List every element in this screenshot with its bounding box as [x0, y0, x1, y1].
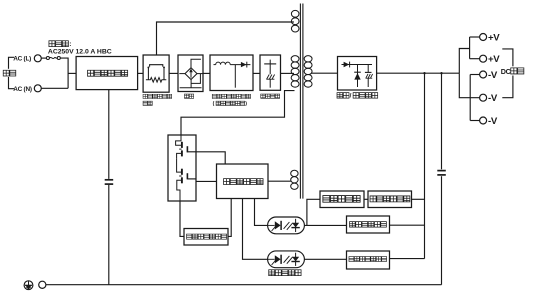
- overcurrent box 过电流回路: [320, 191, 364, 208]
- label 输入: [2, 69, 17, 77]
- wire Q1 gate to drive circuit: [187, 151, 196, 153]
- rectifier box 整流: [178, 55, 203, 92]
- wire AC(N) to junction: [41, 87, 68, 89]
- wire PC1 to voltage detection: [305, 224, 347, 226]
- wire top rail to transformer winding: [157, 22, 294, 55]
- output terminal +V #1: [480, 34, 487, 41]
- wire drive box to aux winding: [268, 180, 291, 182]
- overvoltage detection box 过电压检测回路: [347, 251, 390, 269]
- output terminal -V #5: [480, 117, 487, 124]
- label 光电耦合器: [269, 270, 301, 276]
- wire drive box to photocoupler PC2: [243, 199, 268, 260]
- wire FET source down to overcurrent detect: [180, 201, 184, 236]
- label DC输出: [500, 66, 526, 75]
- photocoupler PC1: [268, 217, 305, 234]
- output diode D2: [342, 64, 373, 66]
- wire output rectifier to terminals: [377, 72, 460, 74]
- wire current detection to bus A: [412, 198, 425, 200]
- inrush resistor R1: [148, 68, 164, 80]
- output capacitor C2: [367, 65, 369, 73]
- label 平滑回路: [261, 94, 280, 98]
- wire secondary to output rectifier: [311, 72, 338, 74]
- wire filter to inrush box: [138, 72, 144, 74]
- wire drive box to photocoupler PC1: [255, 199, 268, 226]
- wire junction up to overcurrent box: [307, 199, 320, 225]
- svg-text:AC (L): AC (L): [13, 56, 31, 63]
- PFC box 谐波电流抑制回路: [210, 55, 253, 91]
- PFC switch node: [234, 65, 236, 88]
- wire Q2 gate to drive circuit: [187, 178, 196, 180]
- output terminal -V #4: [480, 94, 487, 101]
- wire overvoltage detection to bus A: [390, 258, 425, 260]
- X capacitor C4: [105, 179, 114, 181]
- switching transistor box Q1 Q2: [168, 135, 196, 201]
- wire overcurrent to current detection: [364, 198, 368, 200]
- label 整流/平滑回路: [337, 93, 349, 99]
- svg-text:AC (N): AC (N): [13, 86, 32, 93]
- input terminal AC(L): [34, 55, 41, 62]
- PFC inductor L1: [214, 64, 216, 66]
- current detection box 电流检测回路: [368, 191, 412, 208]
- label fuse 保险丝:: [49, 41, 68, 47]
- overcurrent detection box 过电流检测回路: [184, 229, 228, 246]
- fuse F1: [41, 57, 46, 59]
- input terminal AC(N): [34, 85, 41, 92]
- wire inrush to rectifier: [169, 72, 178, 74]
- svg-text:+V: +V: [488, 33, 500, 44]
- svg-text:AC250V 12.0 A HBC: AC250V 12.0 A HBC: [48, 49, 112, 56]
- voltage detection box 电压检测回路: [347, 216, 390, 233]
- PFC diode D1: [241, 62, 247, 67]
- output capacitor C3: [437, 170, 446, 172]
- photocoupler PC2: [268, 251, 305, 268]
- svg-text:(: (: [213, 101, 215, 107]
- smoothing capacitor C1: [269, 60, 271, 64]
- wire smoothing to transformer primary: [281, 72, 295, 74]
- terminal stub wires: [470, 36, 480, 38]
- input bracket: [9, 57, 15, 88]
- output terminal -V #3: [480, 71, 487, 78]
- transformer primary winding: [291, 56, 299, 88]
- DC output bracket: [502, 49, 513, 98]
- sense bus B: [441, 73, 443, 169]
- transistor Q2: [177, 159, 182, 172]
- drive control box 驱动控制回路: [217, 164, 269, 199]
- inrush relay contact: [150, 65, 163, 67]
- label 浪涌电流限制回路: [143, 94, 172, 98]
- wire junction to EMI filter: [68, 72, 76, 74]
- transistor Q1: [176, 135, 182, 145]
- inrush current limit box 浪涌电流限制回路: [143, 55, 169, 92]
- wire fuse to junction: [60, 58, 68, 88]
- wire PC2 to overvoltage detection: [305, 258, 347, 260]
- bottom return bus: [46, 284, 442, 286]
- wire PFC to smoothing: [253, 72, 260, 74]
- output diode D3: [357, 65, 359, 88]
- transformer aux top winding: [291, 10, 299, 32]
- wire overcurrent detect to drive box: [228, 199, 231, 237]
- output bus wiring: [459, 49, 469, 74]
- smoothing box 平滑回路: [260, 55, 281, 90]
- transformer aux drive winding: [291, 170, 298, 189]
- protective earth symbol: [24, 281, 33, 290]
- output terminal +V #2: [480, 55, 487, 62]
- label 谐波电流抑制回路 (功率因数改进): [212, 94, 250, 98]
- wire voltage detection to bus A: [390, 224, 425, 226]
- output rectifier box 整流/平滑回路: [338, 57, 377, 91]
- bridge wiring: [179, 73, 185, 75]
- svg-text:+V: +V: [488, 54, 500, 65]
- svg-text:-V: -V: [488, 93, 498, 104]
- left bulk line from filter: [108, 90, 110, 179]
- wire rectifier to PFC: [203, 72, 210, 74]
- earth terminal: [39, 281, 46, 288]
- svg-text:-V: -V: [488, 116, 498, 127]
- wire primary bottom to FET switch: [181, 91, 295, 135]
- svg-text:-V: -V: [488, 70, 498, 81]
- transformer T1 core: [299, 4, 301, 199]
- svg-text:/: /: [350, 93, 352, 100]
- svg-text::: :: [69, 41, 71, 48]
- EMI filter box 抗干扰滤波器: [76, 57, 138, 90]
- label 整流: [184, 94, 193, 98]
- svg-text:DC: DC: [501, 67, 511, 76]
- bridge rectifier diamond: [185, 68, 197, 80]
- transformer secondary winding: [304, 56, 312, 88]
- sense bus A: [424, 73, 426, 258]
- svg-text:): ): [245, 101, 247, 107]
